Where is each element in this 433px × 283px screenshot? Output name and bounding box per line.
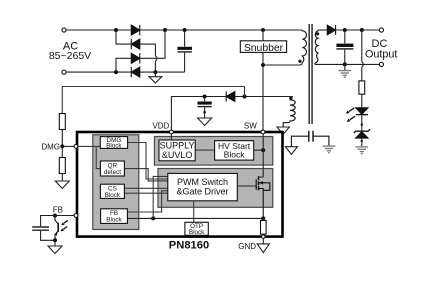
block HV Start bbox=[215, 141, 254, 160]
svg-text:Block: Block bbox=[189, 229, 205, 236]
ground R2 bbox=[55, 174, 69, 189]
svg-text:&Gate Driver: &Gate Driver bbox=[176, 187, 228, 197]
wire output positive bbox=[335, 29, 379, 31]
svg-text:Block: Block bbox=[106, 143, 122, 150]
opto LED D7 bbox=[346, 108, 368, 122]
node FB emitter junction bbox=[53, 238, 57, 242]
block OTP bbox=[185, 222, 208, 235]
diode D4 bridge bbox=[131, 67, 140, 77]
diode D2 bridge bbox=[131, 39, 140, 49]
node output cap top bbox=[343, 28, 347, 32]
svg-text:Block: Block bbox=[105, 192, 121, 199]
capacitor C1 bulk bbox=[184, 30, 186, 47]
node aux DMG junction bbox=[243, 95, 247, 99]
node HV SW junction bbox=[261, 148, 265, 152]
transformer primary winding bbox=[302, 30, 306, 63]
wire DMG block inner bbox=[128, 143, 168, 180]
node AC2 junction bbox=[114, 70, 118, 74]
svg-text:SW: SW bbox=[244, 121, 257, 130]
diode D1 bridge bbox=[131, 25, 140, 35]
wire AC line 2 bbox=[66, 71, 131, 73]
svg-text:85~265V: 85~265V bbox=[49, 50, 91, 62]
wire DMG node to pin bbox=[62, 145, 74, 147]
wire VDD pin to SUPPLY bbox=[170, 134, 172, 140]
zener diode Z1 bbox=[354, 129, 370, 138]
ground Y-cap secondary earth bbox=[323, 146, 336, 153]
ground FB bbox=[48, 240, 62, 253]
ground aux winding bbox=[277, 127, 289, 134]
node source sense junction bbox=[261, 216, 265, 220]
DC output terminal bottom bbox=[379, 62, 383, 66]
node primary bottom junction bbox=[261, 63, 265, 67]
diode D6 output rectifier bbox=[327, 25, 335, 35]
secondary phase dot bbox=[316, 32, 319, 35]
ground Y-cap primary bbox=[285, 147, 297, 155]
wire D2 anode to ground (hop over D3 wire) bbox=[140, 44, 156, 56]
node output cap bottom bbox=[343, 62, 347, 66]
transformer secondary winding bbox=[315, 30, 318, 64]
wire R3 to LED bbox=[361, 94, 363, 108]
transformer auxiliary winding bbox=[283, 97, 295, 128]
primary phase dot bbox=[298, 60, 301, 63]
resistor R3 output bbox=[359, 81, 365, 94]
wire output negative bbox=[316, 63, 379, 65]
svg-text:Block: Block bbox=[106, 217, 122, 224]
snubber box bbox=[240, 41, 286, 53]
svg-text:Output: Output bbox=[365, 49, 397, 61]
node snubber rail junction bbox=[261, 28, 265, 32]
svg-text:PWM Switch: PWM Switch bbox=[177, 177, 228, 187]
node output divider top bbox=[360, 28, 364, 32]
node D3 rail junction bbox=[163, 28, 167, 32]
svg-text:Block: Block bbox=[224, 150, 246, 160]
svg-text:&UVLO: &UVLO bbox=[162, 150, 193, 160]
ground secondary earth bbox=[339, 64, 352, 77]
wire SW to MOSFET drain bbox=[259, 134, 264, 177]
wire AC2 to D3 anode bbox=[116, 58, 132, 72]
node FB bbox=[53, 214, 57, 218]
wire DMG sense from aux bbox=[62, 87, 244, 114]
node AC1 junction bbox=[114, 28, 118, 32]
wire AC line 1 bbox=[66, 29, 131, 31]
wire DMG pin to blocks bbox=[77, 146, 100, 168]
ground C2 bbox=[198, 118, 212, 126]
AC input terminal bottom bbox=[62, 70, 66, 74]
resistor R5 sense bbox=[262, 218, 264, 220]
wire SW node to primary bottom bbox=[263, 63, 302, 66]
node sense junction bbox=[151, 216, 155, 220]
wire rail to snubber bbox=[262, 30, 264, 41]
block PWM Switch Gate Driver bbox=[168, 173, 238, 200]
capacitor C3 output bbox=[344, 30, 346, 43]
svg-text:VDD: VDD bbox=[152, 121, 169, 130]
pin DMG bbox=[74, 145, 78, 149]
block CS Block bbox=[100, 184, 124, 198]
capacitor C4 FB bbox=[32, 226, 49, 228]
diode D3 bridge bbox=[131, 53, 140, 63]
wire snubber to SW node bbox=[262, 52, 264, 131]
opto phototransistor Q1 bbox=[55, 216, 68, 241]
wire FB inner upper bbox=[127, 191, 167, 212]
AC input terminal top bbox=[62, 28, 66, 32]
wire feedback divider (hop over negative rail) bbox=[361, 30, 363, 62]
svg-text:detect: detect bbox=[104, 169, 121, 176]
IC PN8160 box bbox=[77, 132, 283, 237]
transformer core bbox=[309, 24, 310, 124]
wire gate bbox=[237, 185, 256, 187]
wire HV to SW line bbox=[254, 149, 264, 151]
wire FB node to pin bbox=[55, 215, 74, 217]
resistor R1 DMG upper bbox=[59, 114, 65, 130]
transistor Q2 MOSFET bbox=[256, 176, 270, 218]
diode D5 VDD rectifier bbox=[226, 91, 235, 101]
block QR detect bbox=[100, 161, 124, 176]
wire LED to zener bbox=[361, 115, 363, 131]
wire secondary top to diode bbox=[318, 29, 328, 31]
svg-text:GND: GND bbox=[238, 242, 256, 251]
wire CS sense line bbox=[127, 217, 263, 219]
ground bridge bbox=[149, 72, 162, 83]
wire R1 to DMG node bbox=[61, 130, 63, 147]
block FB Block bbox=[101, 209, 128, 224]
ground GND pin bbox=[257, 238, 269, 252]
pin FB bbox=[74, 214, 78, 218]
svg-text:Snubber: Snubber bbox=[244, 43, 284, 54]
DC output terminal top bbox=[379, 28, 383, 32]
node C1 top bbox=[183, 28, 187, 32]
IC top gray block bbox=[154, 137, 272, 166]
wire AC1 to D2 cathode bbox=[116, 30, 132, 44]
pin SW bbox=[261, 130, 265, 134]
block DMG Block bbox=[100, 137, 127, 149]
svg-text:DMG: DMG bbox=[41, 142, 60, 151]
block SUPPLY UVLO bbox=[159, 140, 195, 161]
wire D3 cathode to HV rail bbox=[140, 30, 165, 58]
wire bottom return bbox=[140, 71, 185, 73]
wire aux to VDD diode bbox=[235, 96, 293, 98]
pin VDD bbox=[170, 130, 174, 134]
capacitor C5 Y-cap bbox=[291, 131, 329, 147]
wire CS inner 1 bbox=[124, 187, 167, 189]
wire DMG to R2 bbox=[61, 146, 63, 157]
wire D5 to VDD pin bbox=[171, 97, 226, 131]
IC left gray block bbox=[93, 135, 139, 230]
wire PWM to OTP bbox=[193, 201, 195, 223]
wire QR inner bbox=[124, 169, 167, 181]
wire FB to cap branch bbox=[41, 216, 55, 227]
resistor R2 DMG lower bbox=[59, 158, 65, 174]
node VDD cap junction bbox=[203, 95, 207, 99]
ground zener earth bbox=[356, 138, 369, 154]
node bridge ground junction bbox=[153, 70, 157, 74]
svg-text:FB: FB bbox=[53, 206, 63, 215]
wire sense vertical bbox=[153, 176, 168, 218]
node DMG bbox=[60, 144, 64, 148]
wire SUPPLY to HV bbox=[195, 149, 214, 151]
wire CS inner 2 bbox=[124, 192, 167, 194]
aux phase dot bbox=[289, 97, 292, 100]
pin GND bbox=[262, 235, 266, 239]
IC middle gray block bbox=[158, 169, 273, 208]
capacitor C2 VDD bbox=[204, 97, 206, 102]
svg-text:PN8160: PN8160 bbox=[169, 240, 209, 252]
wire HV+ rail bbox=[140, 29, 303, 31]
